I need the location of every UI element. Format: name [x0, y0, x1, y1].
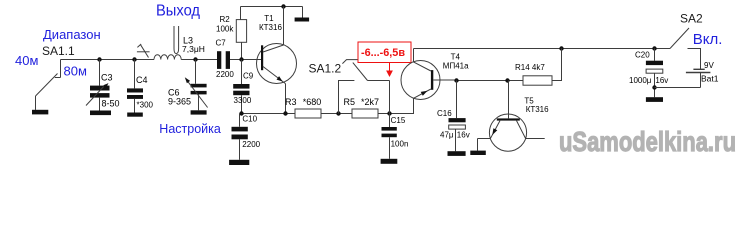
node C9 top junction — [239, 57, 243, 61]
svg-text:2200: 2200 — [242, 140, 260, 149]
svg-text:100n: 100n — [391, 140, 409, 149]
capacitor C4 bottom lead — [134, 99, 136, 113]
capacitor C3 bottom lead — [99, 98, 101, 111]
capacitor C16 — [449, 118, 466, 122]
svg-text:40м: 40м — [15, 53, 38, 68]
wire antenna lead — [35, 96, 37, 110]
svg-text:*680: *680 — [303, 97, 322, 107]
capacitor C7 — [217, 51, 230, 69]
transistor T1 — [257, 44, 297, 84]
svg-text:C3: C3 — [101, 73, 113, 83]
middle bus — [242, 98, 414, 113]
svg-text:2200: 2200 — [216, 70, 234, 79]
capacitor C10 leads — [239, 114, 241, 160]
capacitor C16 lead — [456, 81, 458, 119]
node T5 base junction — [505, 78, 509, 82]
svg-text:9-365: 9-365 — [168, 96, 191, 106]
base wire T4 — [457, 80, 524, 82]
svg-text:16v: 16v — [655, 76, 668, 85]
node C20 junction — [652, 46, 656, 50]
wire main input bus — [61, 59, 155, 61]
svg-text:100k: 100k — [216, 25, 234, 34]
svg-text:Bat1: Bat1 — [701, 74, 719, 84]
resistor R14 — [523, 76, 552, 85]
switch SA2 blade — [670, 28, 689, 49]
svg-text:SA2: SA2 — [680, 11, 703, 25]
resistor R5 — [352, 109, 378, 118]
svg-text:SA1.1: SA1.1 — [42, 44, 75, 58]
capacitor C16 bottom lead — [455, 129, 457, 151]
svg-text:T1: T1 — [264, 14, 274, 23]
capacitor C6 bottom lead — [198, 94, 200, 110]
capacitor C4 lead — [134, 60, 136, 89]
node SA1.2 left junction — [336, 111, 340, 115]
svg-text:C20: C20 — [635, 51, 650, 60]
svg-text:C16: C16 — [437, 109, 452, 118]
svg-text:47μ: 47μ — [440, 130, 454, 139]
switch SA1.1 blade — [36, 74, 58, 97]
node R14 rail junction — [559, 46, 563, 50]
annotation arrow — [389, 63, 391, 73]
node C3 junction — [97, 57, 101, 61]
node C10 junction — [239, 111, 243, 115]
capacitor C9 — [233, 84, 249, 95]
ground under C6 — [191, 110, 207, 114]
capacitor C3 — [90, 86, 110, 98]
resistor R3 — [295, 109, 321, 118]
capacitor C20 lead — [654, 49, 656, 61]
transistor T5 — [489, 114, 526, 151]
supply rail — [414, 48, 671, 50]
capacitor C20 — [646, 61, 663, 65]
switch SA1.1 contact — [55, 60, 61, 78]
svg-text:МП41а: МП41а — [443, 61, 469, 70]
capacitor C3 lead — [99, 60, 101, 86]
svg-text:7,3μH: 7,3μH — [182, 44, 205, 54]
svg-text:T4: T4 — [451, 53, 461, 62]
svg-text:Вкл.: Вкл. — [693, 31, 723, 48]
battery Bat1 — [688, 49, 701, 70]
ground under C15 — [381, 159, 398, 164]
capacitor C6 — [191, 84, 207, 95]
svg-text:Настройка: Настройка — [159, 122, 221, 136]
svg-text:9V: 9V — [704, 61, 714, 70]
capacitor C10 — [232, 127, 248, 140]
svg-text:КТ316: КТ316 — [526, 105, 549, 114]
capacitor C6 arrow — [187, 80, 208, 108]
output tap loop — [174, 26, 179, 54]
svg-text:C4: C4 — [136, 75, 148, 85]
top rail — [241, 6, 303, 8]
svg-text:C10: C10 — [242, 114, 257, 123]
svg-text:R3: R3 — [285, 97, 297, 107]
capacitor C9 lead — [241, 60, 243, 85]
node C16 junction — [454, 78, 458, 82]
svg-text:C15: C15 — [391, 116, 406, 125]
svg-text:*300: *300 — [137, 101, 154, 110]
ground under C20 — [646, 97, 663, 102]
coil tap switch mark — [137, 51, 150, 53]
wire C7 to T1 base — [230, 59, 262, 61]
svg-text:Выход: Выход — [156, 3, 201, 20]
switch SA1.2 — [339, 81, 355, 114]
capacitor C15 bottom lead — [389, 137, 391, 159]
svg-text:Диапазон: Диапазон — [43, 27, 101, 42]
svg-text:*2k7: *2k7 — [361, 97, 379, 107]
capacitor C6 lead — [195, 60, 197, 84]
capacitor C15 lead — [389, 81, 391, 128]
capacitor C9 bottom lead — [241, 95, 243, 113]
svg-text:C7: C7 — [216, 39, 227, 48]
svg-text:R14 4k7: R14 4k7 — [515, 63, 545, 72]
svg-text:1000μ: 1000μ — [629, 76, 652, 85]
svg-text:КТ316: КТ316 — [259, 23, 282, 32]
svg-text:SA1.2: SA1.2 — [309, 62, 342, 76]
svg-text:uSamodelkina.ru: uSamodelkina.ru — [559, 126, 736, 157]
transistor T4 — [401, 61, 440, 100]
ground top right — [302, 7, 304, 18]
capacitor C3 arrow — [86, 85, 106, 106]
ground under C10 — [229, 160, 249, 165]
node T1 emitter junction — [283, 111, 287, 115]
inductor L3 — [154, 55, 181, 60]
svg-text:R5: R5 — [344, 97, 356, 107]
node battery return junction — [652, 85, 656, 89]
resistor R2 — [240, 7, 242, 20]
svg-text:R2: R2 — [220, 15, 231, 24]
capacitor C15 — [382, 127, 397, 137]
ground under C3 — [90, 111, 111, 116]
node T1 collector junction — [281, 4, 285, 8]
capacitor C4 — [127, 88, 143, 99]
svg-text:80м: 80м — [64, 64, 87, 79]
capacitor C20 bottom lead — [654, 73, 656, 97]
ground under C16 — [448, 151, 466, 156]
antenna terminal bar — [32, 110, 48, 115]
node C6 junction — [193, 57, 197, 61]
wire coil to C7 — [181, 59, 217, 61]
svg-text:16v: 16v — [457, 130, 470, 139]
ground under C4 — [127, 113, 143, 117]
ground under T5 emitter — [470, 151, 486, 155]
node C15 junction — [387, 111, 391, 115]
svg-text:8-50: 8-50 — [102, 99, 120, 109]
svg-text:3300: 3300 — [234, 96, 252, 105]
svg-text:-6...-6,5в: -6...-6,5в — [361, 47, 405, 59]
svg-text:C9: C9 — [243, 72, 254, 81]
node C4 junction — [132, 57, 136, 61]
annotation box -6...-6,5в — [358, 42, 411, 63]
